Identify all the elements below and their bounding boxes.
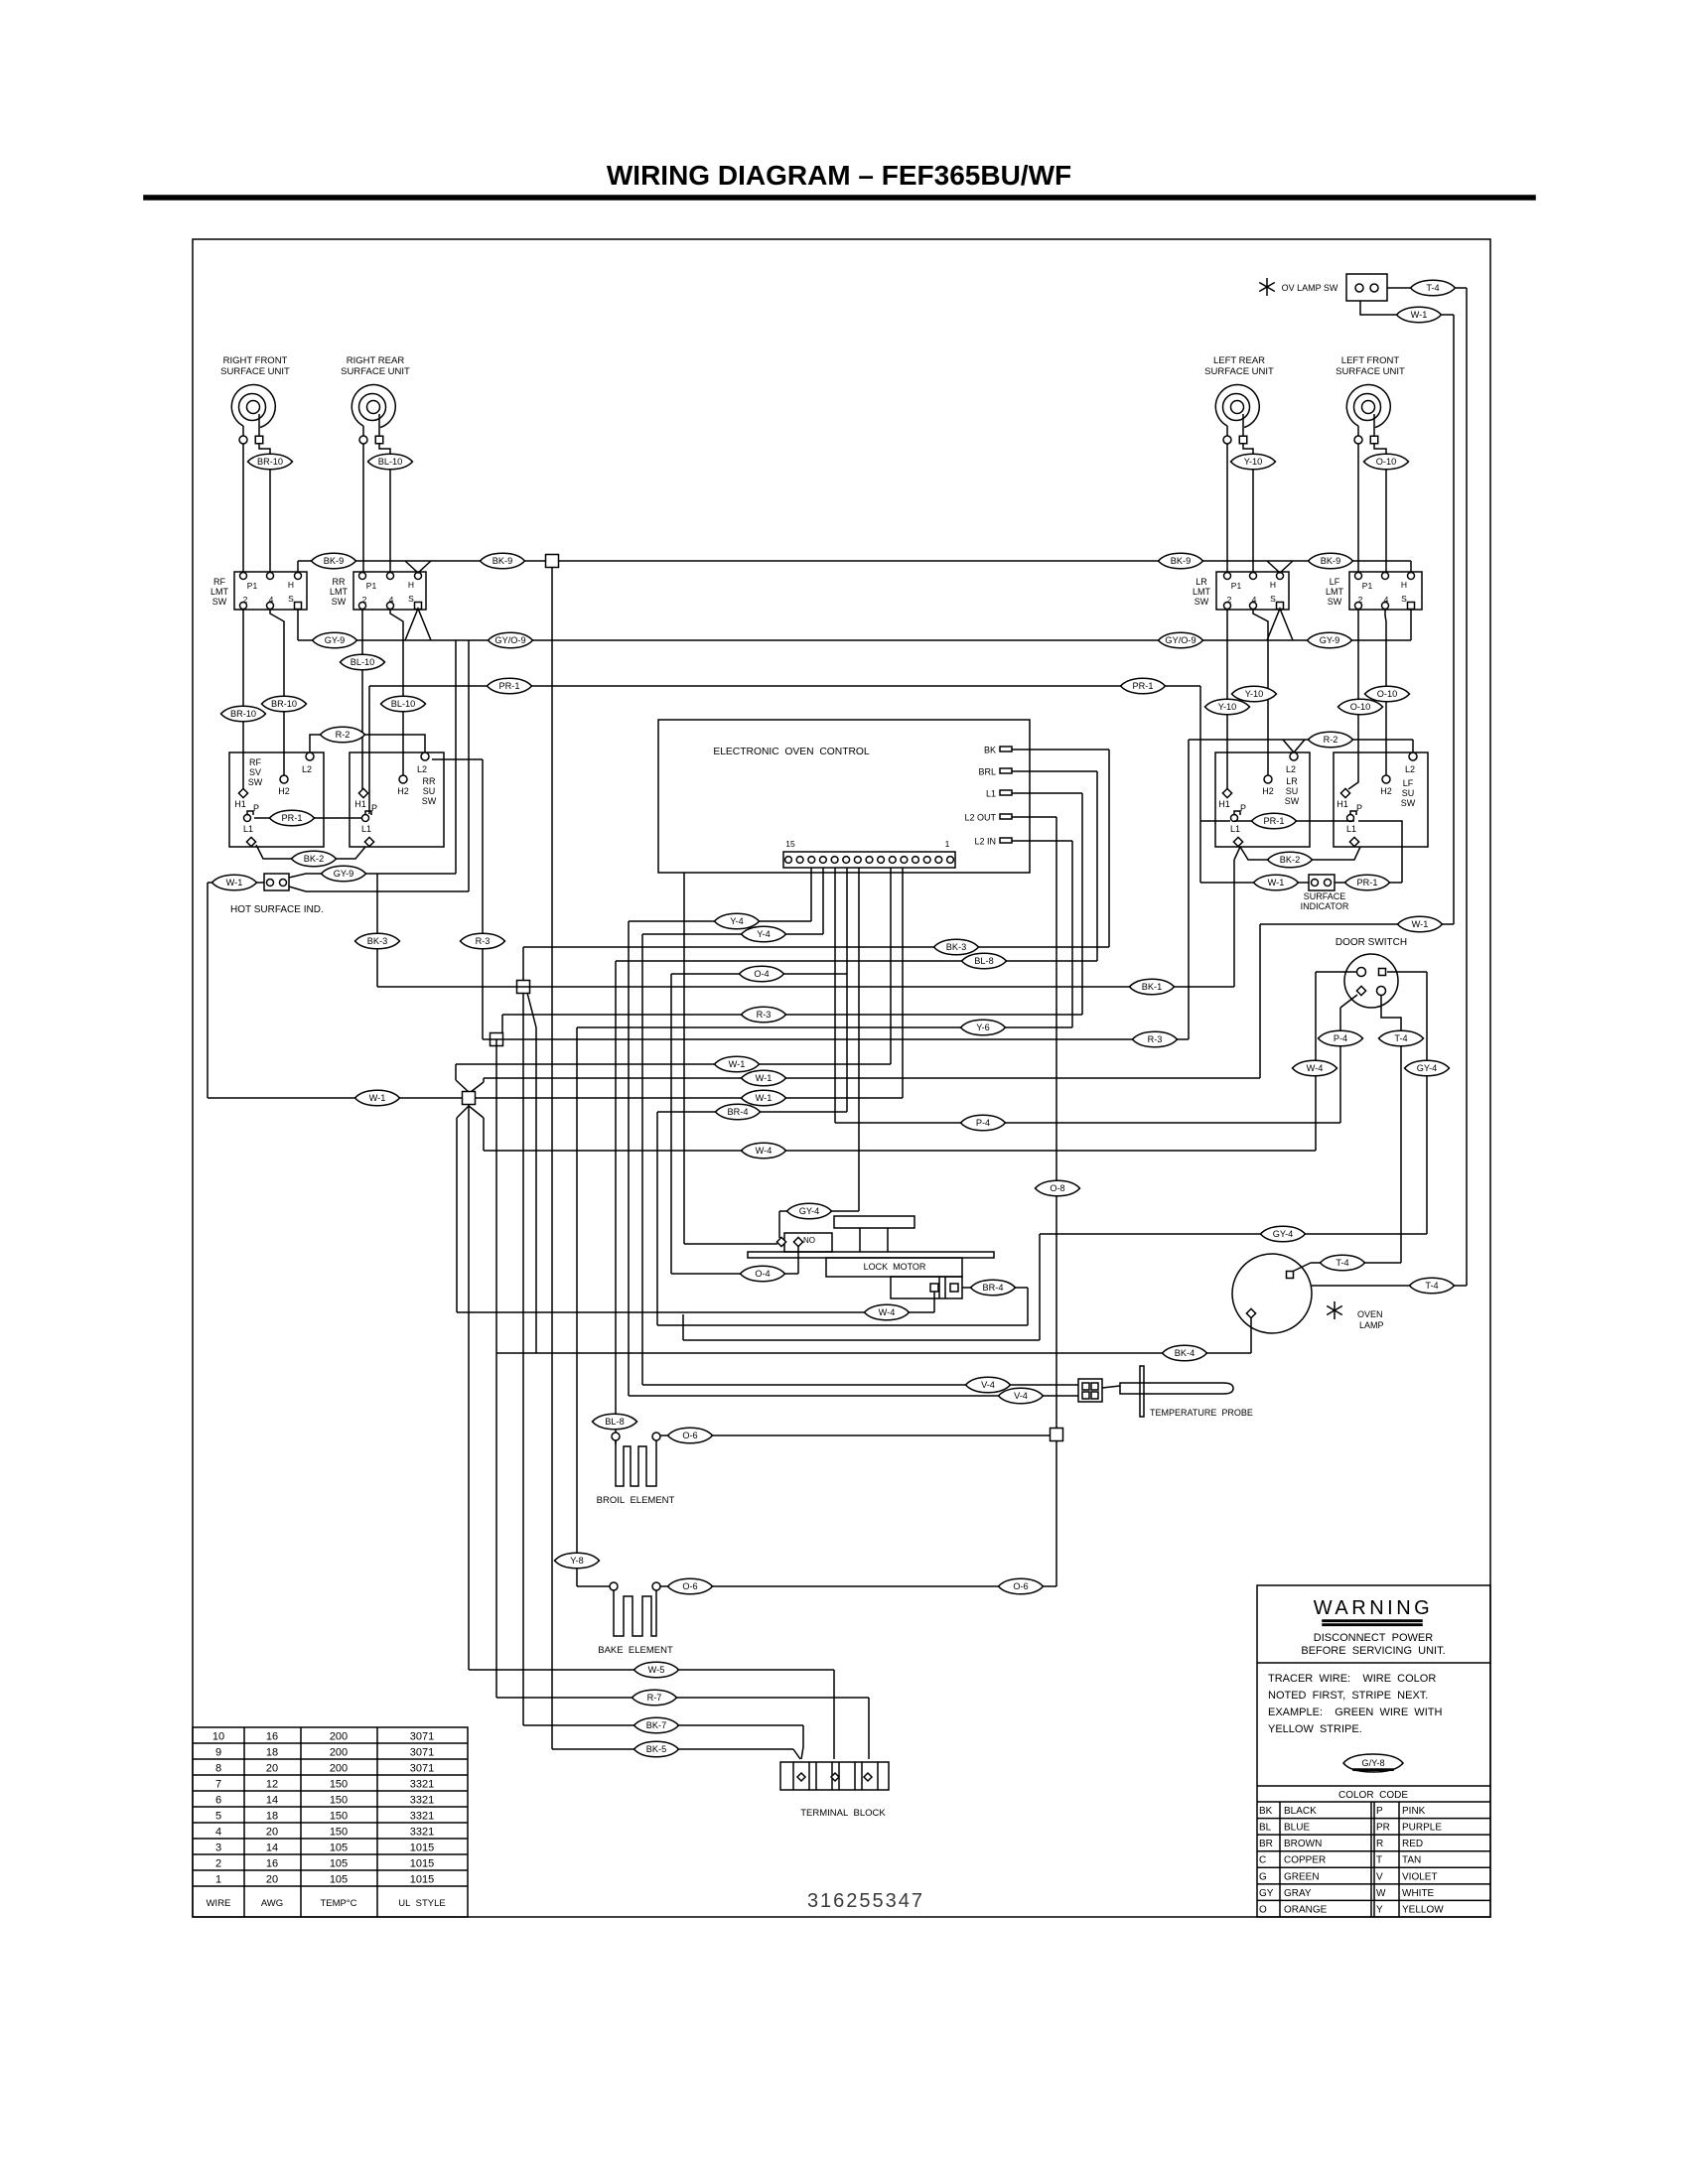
svg-text:W-1: W-1 <box>1412 919 1429 929</box>
svg-text:LMT: LMT <box>211 587 229 597</box>
wire label W-4 <box>742 1143 786 1159</box>
svg-text:W-1: W-1 <box>756 1073 773 1083</box>
svg-text:BR-10: BR-10 <box>230 709 256 719</box>
svg-text:4: 4 <box>1252 595 1257 605</box>
wire BK-1 long net <box>377 986 1234 988</box>
svg-text:GY/O-9: GY/O-9 <box>494 635 525 645</box>
wire label O-4 <box>740 966 784 982</box>
svg-text:LR: LR <box>1286 776 1298 786</box>
svg-text:H: H <box>1270 580 1276 590</box>
wire label GY-9 <box>322 866 366 882</box>
svg-text:SURFACE UNIT: SURFACE UNIT <box>1204 366 1274 377</box>
EOC pin L2 OUT <box>964 813 1012 823</box>
junction square J1 <box>517 981 530 994</box>
svg-text:L1: L1 <box>986 789 996 799</box>
svg-text:Y-10: Y-10 <box>1218 702 1237 712</box>
wire label W-4 <box>1293 1060 1337 1076</box>
wire label BL-10 <box>368 454 413 470</box>
svg-text:T: T <box>1376 1855 1382 1866</box>
wire W-1 second to door switch <box>471 924 1454 1092</box>
wire label W-1 <box>742 1090 786 1106</box>
title rule <box>144 196 1535 200</box>
svg-text:10: 10 <box>212 1731 224 1743</box>
svg-text:1015: 1015 <box>410 1874 434 1886</box>
surface switch RF SV SW <box>229 752 324 847</box>
surface unit LEFT REAR SURFACE UNIT <box>1204 355 1274 444</box>
wire BK-3 from hot surface indicator <box>289 874 469 987</box>
svg-text:L2 IN: L2 IN <box>974 837 996 847</box>
wire label R-2 <box>321 727 365 743</box>
svg-text:O-10: O-10 <box>1350 702 1370 712</box>
svg-text:BAKE ELEMENT: BAKE ELEMENT <box>598 1645 673 1656</box>
oven lamp <box>1232 1254 1312 1333</box>
svg-text:Y-6: Y-6 <box>976 1023 989 1032</box>
svg-text:150: 150 <box>330 1827 348 1839</box>
wire label GY/O-9 <box>489 632 533 648</box>
wire label G/Y-8 example <box>1343 1754 1403 1772</box>
svg-text:3321: 3321 <box>410 1779 434 1791</box>
svg-text:105: 105 <box>330 1858 348 1870</box>
svg-text:BR-10: BR-10 <box>257 457 283 467</box>
wire label GY-4 <box>1261 1226 1306 1242</box>
wire label W-1 <box>1254 875 1299 890</box>
svg-text:H1: H1 <box>1336 799 1348 809</box>
svg-text:150: 150 <box>330 1795 348 1807</box>
wire label BL-8 <box>593 1414 637 1430</box>
svg-text:GY/O-9: GY/O-9 <box>1165 635 1196 645</box>
svg-text:P1: P1 <box>1362 581 1373 591</box>
wire from LEFT FRONT SURFACE UNIT <box>1358 444 1386 573</box>
lock motor <box>748 1216 994 1298</box>
wire O-6 broil to junction <box>660 1434 1051 1436</box>
wire label BR-4 <box>971 1280 1016 1296</box>
svg-text:HOT SURFACE IND.: HOT SURFACE IND. <box>230 904 324 915</box>
svg-text:1: 1 <box>215 1874 221 1886</box>
wire label R-7 <box>633 1690 677 1706</box>
svg-text:BR-4: BR-4 <box>728 1107 749 1117</box>
wire L1 from EOC R-3 <box>502 793 1082 1040</box>
wire L2 IN from EOC Y-6 <box>577 841 1072 1586</box>
temperature probe <box>1078 1366 1233 1417</box>
svg-text:WHITE: WHITE <box>1402 1888 1435 1899</box>
svg-text:W-4: W-4 <box>1307 1063 1324 1073</box>
svg-text:O-10: O-10 <box>1376 457 1396 467</box>
svg-text:2: 2 <box>362 595 367 605</box>
svg-text:3321: 3321 <box>410 1811 434 1823</box>
svg-text:RR: RR <box>423 776 436 786</box>
svg-text:SW: SW <box>422 796 437 806</box>
wire T-4 door to oven lamp <box>1290 996 1401 1273</box>
svg-text:316255347: 316255347 <box>807 1890 924 1912</box>
svg-text:3321: 3321 <box>410 1827 434 1839</box>
junction on BK-9 bus <box>546 555 559 568</box>
svg-text:SURFACE UNIT: SURFACE UNIT <box>341 366 410 377</box>
svg-text:S: S <box>408 594 414 604</box>
surface switch LR SU SW <box>1215 752 1310 847</box>
svg-text:S: S <box>288 594 294 604</box>
hot surface indicator <box>264 874 289 890</box>
oven lamp label <box>1327 1301 1383 1330</box>
svg-text:O-4: O-4 <box>755 1269 770 1279</box>
svg-text:V: V <box>1376 1871 1383 1882</box>
svg-text:G/Y-8: G/Y-8 <box>1361 1758 1384 1768</box>
svg-text:Y-10: Y-10 <box>1244 457 1263 467</box>
svg-text:PURPLE: PURPLE <box>1402 1823 1442 1834</box>
svg-text:H: H <box>408 580 414 590</box>
wire label T-4 <box>1410 1278 1455 1294</box>
limit switch LR LMT SW <box>1193 572 1289 610</box>
svg-text:R-3: R-3 <box>476 936 491 946</box>
EOC pin L1 <box>986 789 1012 799</box>
wire R-3 red net vertical <box>432 759 1189 1698</box>
svg-text:LF: LF <box>1403 778 1414 788</box>
surface indicator <box>1309 875 1335 890</box>
wire label Y-6 <box>961 1020 1006 1035</box>
svg-text:4: 4 <box>269 595 274 605</box>
broil element <box>597 1433 675 1506</box>
svg-text:Y-10: Y-10 <box>1245 689 1264 699</box>
surface unit LEFT FRONT SURFACE UNIT <box>1336 355 1405 444</box>
svg-text:P: P <box>1240 803 1246 813</box>
svg-text:BLUE: BLUE <box>1284 1823 1310 1834</box>
svg-text:P1: P1 <box>1231 581 1242 591</box>
svg-text:RF: RF <box>249 757 261 767</box>
svg-text:L2: L2 <box>417 764 427 774</box>
wire V-4 pair to probe <box>629 1385 1078 1396</box>
svg-text:BK: BK <box>1259 1806 1273 1817</box>
svg-text:V-4: V-4 <box>1014 1391 1028 1401</box>
wire T-4 from OV LAMP SW to oven lamp <box>1387 288 1467 1286</box>
svg-text:O-6: O-6 <box>682 1431 697 1440</box>
svg-text:6: 6 <box>215 1795 221 1807</box>
svg-text:L1: L1 <box>1230 824 1240 834</box>
svg-text:OV LAMP SW: OV LAMP SW <box>1282 283 1338 293</box>
svg-text:4: 4 <box>389 595 394 605</box>
wire BK-2 left <box>256 845 365 859</box>
svg-text:WIRING DIAGRAM – FEF365BU/WF: WIRING DIAGRAM – FEF365BU/WF <box>607 160 1071 191</box>
wire label W-4 <box>865 1304 910 1320</box>
svg-text:BK: BK <box>984 746 996 755</box>
wire label Y-8 <box>555 1553 600 1569</box>
wire PR-1 between RF and RR P pins <box>254 817 362 819</box>
svg-text:PR: PR <box>1376 1823 1390 1834</box>
limit switch RR LMT SW <box>330 572 426 610</box>
svg-text:LMT: LMT <box>330 587 349 597</box>
wire from RIGHT REAR SURFACE UNIT <box>363 444 390 573</box>
wire label BR-10 <box>262 696 307 712</box>
svg-text:V-4: V-4 <box>981 1380 995 1390</box>
junction square on orange net <box>1051 1429 1063 1441</box>
electronic oven control U1 <box>658 720 1030 873</box>
wire BK from EOC <box>523 750 1109 1725</box>
svg-text:GY-9: GY-9 <box>325 635 346 645</box>
EOC pin L2 IN <box>974 837 1012 847</box>
svg-text:R-3: R-3 <box>757 1010 772 1020</box>
wire W-1 from OV LAMP SW <box>1360 301 1454 924</box>
wire W-1 third <box>208 868 903 1098</box>
wire label P-4 <box>1319 1030 1363 1046</box>
wire label W-1 <box>212 875 257 890</box>
svg-text:SU: SU <box>1402 788 1415 798</box>
surface switch RR SU SW <box>350 752 444 847</box>
terminal block <box>780 1762 889 1819</box>
svg-text:BLACK: BLACK <box>1284 1806 1317 1817</box>
EOC pin BK <box>984 746 1012 755</box>
svg-text:Y-8: Y-8 <box>570 1556 583 1566</box>
bake element <box>598 1582 673 1656</box>
svg-text:BR: BR <box>1259 1839 1273 1849</box>
wire PR-1 from surface indicator to LF P <box>1335 821 1402 883</box>
wire label GY-9 <box>313 632 357 648</box>
svg-text:T-4: T-4 <box>1426 283 1439 293</box>
svg-text:GRAY: GRAY <box>1284 1888 1312 1899</box>
svg-text:LMT: LMT <box>1326 587 1344 597</box>
svg-text:GY-9: GY-9 <box>1320 635 1340 645</box>
svg-text:SW: SW <box>1401 798 1416 808</box>
svg-text:16: 16 <box>266 1731 278 1743</box>
svg-text:O-8: O-8 <box>1050 1183 1064 1193</box>
svg-text:1: 1 <box>945 839 950 849</box>
svg-text:TEMPERATURE PROBE: TEMPERATURE PROBE <box>1150 1408 1253 1418</box>
svg-text:P-4: P-4 <box>1334 1033 1347 1043</box>
svg-text:O-4: O-4 <box>754 969 769 979</box>
wire label O-10 <box>1338 699 1383 715</box>
svg-text:Y: Y <box>1376 1904 1383 1915</box>
svg-text:SW: SW <box>1195 597 1209 607</box>
svg-text:RR: RR <box>333 577 346 587</box>
svg-text:BL-8: BL-8 <box>605 1417 624 1427</box>
svg-text:H1: H1 <box>234 799 246 809</box>
wire label BK-4 <box>1163 1345 1207 1361</box>
svg-text:SV: SV <box>249 767 261 777</box>
svg-text:W-4: W-4 <box>756 1146 773 1156</box>
svg-text:150: 150 <box>330 1779 348 1791</box>
svg-text:R-2: R-2 <box>1324 735 1338 745</box>
wire label W-1 <box>715 1056 760 1072</box>
svg-text:105: 105 <box>330 1843 348 1854</box>
wire label O-4 <box>741 1266 785 1282</box>
svg-text:P1: P1 <box>247 581 258 591</box>
svg-text:LEFT FRONT: LEFT FRONT <box>1341 355 1400 366</box>
wire white bus vertical <box>457 640 484 1670</box>
svg-text:S: S <box>1270 594 1276 604</box>
wire O-6 bake <box>660 1585 1056 1587</box>
wire GY-4 door net <box>683 873 1427 1340</box>
wire from LEFT REAR SURFACE UNIT <box>1227 444 1253 573</box>
wire W-4 to lock motor <box>457 1292 934 1312</box>
svg-text:200: 200 <box>330 1731 348 1743</box>
svg-text:ELECTRONIC OVEN CONTROL: ELECTRONIC OVEN CONTROL <box>713 747 870 757</box>
svg-text:W: W <box>1376 1888 1386 1899</box>
svg-text:H: H <box>1401 580 1407 590</box>
wire label BK-2 <box>292 851 337 867</box>
svg-text:UL STYLE: UL STYLE <box>398 1898 446 1909</box>
wire BRL from EOC BL-8 <box>616 771 1097 1435</box>
svg-text:R-3: R-3 <box>1148 1034 1163 1044</box>
svg-text:W-1: W-1 <box>1411 310 1428 320</box>
svg-text:GY-4: GY-4 <box>799 1206 820 1216</box>
wire label O-10 <box>1364 454 1409 470</box>
svg-text:SW: SW <box>332 597 347 607</box>
wire label PR-1 <box>1252 813 1297 829</box>
svg-text:2: 2 <box>1227 595 1232 605</box>
svg-text:12: 12 <box>266 1779 278 1791</box>
svg-text:15: 15 <box>785 839 795 849</box>
svg-text:SURFACE: SURFACE <box>1304 891 1346 901</box>
svg-text:H1: H1 <box>1218 799 1230 809</box>
wire via J1 down <box>535 1027 537 1353</box>
svg-text:PR-1: PR-1 <box>1264 816 1285 826</box>
junction square J2 <box>491 1033 503 1046</box>
svg-text:O-6: O-6 <box>682 1581 697 1591</box>
svg-text:T-4: T-4 <box>1394 1033 1407 1043</box>
svg-text:GREEN: GREEN <box>1284 1871 1320 1882</box>
svg-text:PR-1: PR-1 <box>499 681 520 691</box>
svg-text:W-5: W-5 <box>648 1665 665 1675</box>
wire gauge table <box>193 1727 468 1917</box>
svg-text:200: 200 <box>330 1747 348 1759</box>
svg-text:8: 8 <box>215 1763 221 1775</box>
svg-text:SW: SW <box>1285 796 1300 806</box>
surface switch LF SU SW <box>1334 752 1428 847</box>
svg-text:BL-8: BL-8 <box>974 956 993 966</box>
wire label GY/O-9 <box>1159 632 1203 648</box>
svg-text:TRACER WIRE: WIRE COLOR: TRACER WIRE: WIRE COLOR <box>1268 1673 1436 1685</box>
wire label V-4 <box>966 1377 1011 1393</box>
svg-text:H: H <box>288 580 294 590</box>
svg-text:R-7: R-7 <box>647 1693 662 1703</box>
svg-text:GY: GY <box>1259 1888 1274 1899</box>
wire label BK-3 <box>355 933 400 949</box>
wire label W-1 <box>355 1090 400 1106</box>
svg-text:14: 14 <box>266 1795 278 1807</box>
svg-text:LAMP: LAMP <box>1359 1320 1384 1330</box>
svg-text:200: 200 <box>330 1763 348 1775</box>
svg-text:RF: RF <box>213 577 225 587</box>
svg-text:1015: 1015 <box>410 1858 434 1870</box>
svg-text:O: O <box>1259 1904 1267 1915</box>
wire label BK-9 <box>312 553 356 569</box>
wire W-1 first <box>456 868 891 1092</box>
svg-text:BK-7: BK-7 <box>646 1720 666 1730</box>
svg-text:Y-4: Y-4 <box>757 929 770 939</box>
wire label W-1 <box>1398 916 1443 932</box>
svg-text:BK-3: BK-3 <box>946 942 966 952</box>
wire label R-3 <box>1133 1031 1178 1047</box>
svg-text:VIOLET: VIOLET <box>1402 1871 1438 1882</box>
svg-text:NO: NO <box>803 1236 815 1245</box>
svg-text:WIRE: WIRE <box>207 1898 231 1909</box>
svg-text:L2: L2 <box>1286 764 1296 774</box>
wire Y-8 to bake <box>577 1585 610 1587</box>
wire BR-4 from strip to lock motor <box>657 868 1028 1325</box>
limit switch LF LMT SW <box>1326 572 1422 610</box>
svg-text:YELLOW STRIPE.: YELLOW STRIPE. <box>1268 1723 1362 1735</box>
svg-text:P: P <box>1376 1806 1383 1817</box>
wire label PR-1 <box>270 810 315 826</box>
svg-text:RIGHT REAR: RIGHT REAR <box>347 355 405 366</box>
surface unit RIGHT REAR SURFACE UNIT <box>341 355 410 444</box>
oven lamp switch OV LAMP SW <box>1259 274 1387 301</box>
wire BK-9 bus across limit switches <box>298 561 1411 573</box>
svg-text:150: 150 <box>330 1811 348 1823</box>
wire GY-4 from strip to lock motor <box>779 868 859 1238</box>
wire LF limit to LF surface switch <box>1348 609 1386 789</box>
svg-text:3071: 3071 <box>410 1731 434 1743</box>
wire RR limit to RR surface switch <box>362 609 403 789</box>
wire label BL-10 <box>381 696 426 712</box>
svg-text:PR-1: PR-1 <box>1357 878 1378 887</box>
wire label PR-1 <box>488 678 532 694</box>
svg-text:BEFORE SERVICING UNIT.: BEFORE SERVICING UNIT. <box>1301 1645 1445 1657</box>
svg-text:4: 4 <box>1384 595 1389 605</box>
svg-text:20: 20 <box>266 1874 278 1886</box>
svg-text:BK-9: BK-9 <box>1171 556 1191 566</box>
svg-text:P: P <box>1356 803 1362 813</box>
drawing border <box>193 239 1490 1917</box>
svg-text:1015: 1015 <box>410 1843 434 1854</box>
svg-text:W-1: W-1 <box>729 1059 746 1069</box>
svg-text:G: G <box>1259 1871 1267 1882</box>
svg-text:COPPER: COPPER <box>1284 1855 1326 1866</box>
wire Y-4 pin 12 <box>642 868 823 1385</box>
svg-text:BK-1: BK-1 <box>1142 982 1162 992</box>
svg-text:R-2: R-2 <box>336 730 351 740</box>
wire label O-8 <box>1036 1180 1080 1196</box>
wire label T-4 <box>1379 1030 1424 1046</box>
svg-text:SURFACE UNIT: SURFACE UNIT <box>1336 366 1405 377</box>
wire W-1 to surface indicator <box>1200 882 1309 884</box>
svg-text:PR-1: PR-1 <box>282 813 303 823</box>
svg-text:H2: H2 <box>397 786 409 796</box>
svg-text:BRL: BRL <box>978 767 996 777</box>
wire label PR-1 <box>1345 875 1390 890</box>
svg-text:3321: 3321 <box>410 1795 434 1807</box>
svg-text:3071: 3071 <box>410 1747 434 1759</box>
svg-text:C: C <box>1259 1855 1266 1866</box>
wire label Y-4 <box>715 913 760 929</box>
wire label Y-10 <box>1205 699 1250 715</box>
svg-text:H2: H2 <box>278 786 290 796</box>
svg-text:H1: H1 <box>354 799 366 809</box>
svg-text:BK-4: BK-4 <box>1175 1348 1195 1358</box>
wire P-4 from strip to door switch <box>835 868 1357 1123</box>
wire BK-2 right <box>1234 847 1360 987</box>
wire label O-10 <box>1365 686 1410 702</box>
svg-text:PINK: PINK <box>1402 1806 1426 1817</box>
wire label BR-4 <box>716 1104 761 1120</box>
wire label O-6 <box>668 1578 713 1594</box>
wire W-4 net horizontal <box>484 972 1356 1151</box>
wire label T-4 <box>1321 1255 1365 1271</box>
svg-text:5: 5 <box>215 1811 221 1823</box>
svg-text:SU: SU <box>423 786 436 796</box>
wire label Y-4 <box>742 926 786 942</box>
svg-text:INDICATOR: INDICATOR <box>1301 901 1349 911</box>
svg-text:LF: LF <box>1330 577 1340 587</box>
svg-text:4: 4 <box>215 1827 221 1839</box>
wire label BK-1 <box>1130 979 1175 995</box>
svg-text:L2 OUT: L2 OUT <box>964 813 996 823</box>
wire label R-2 <box>1309 732 1353 748</box>
wire label GY-4 <box>787 1203 832 1219</box>
svg-text:BL-10: BL-10 <box>378 457 403 467</box>
title <box>607 160 1071 191</box>
svg-text:T-4: T-4 <box>1336 1258 1348 1268</box>
svg-text:SW: SW <box>248 777 263 787</box>
svg-text:GY-4: GY-4 <box>1273 1229 1294 1239</box>
wire PR-1 between LR and LF P pins <box>1234 820 1354 822</box>
